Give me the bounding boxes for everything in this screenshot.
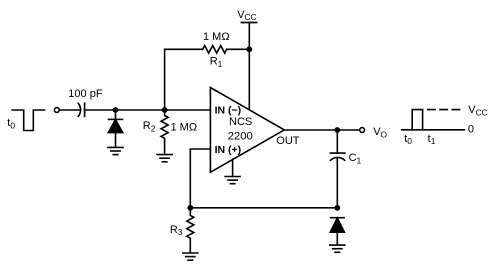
feedback wire node B up [165,49,203,110]
wire node A to node B [116,109,165,111]
resistor R1 (horizontal) [203,46,227,54]
ground (R2) [157,155,172,162]
svg-text:3: 3 [178,227,183,237]
VCC terminal bar [242,22,257,24]
op-amp U1 NCS2200 triangle [210,88,284,173]
label VO [373,126,387,139]
label IN (+) [215,144,242,156]
output waveform baseline 0 [402,129,465,131]
label 0 (waveform) [468,124,474,136]
wire capacitor to node A [85,109,116,111]
diode D1 (clamp to ground, cathode up) [108,110,122,147]
svg-text:2200: 2200 [228,130,253,142]
wire node D to node E [190,207,337,209]
svg-text:1 MΩ: 1 MΩ [203,31,230,43]
ground (D2) [330,245,345,252]
svg-text:2: 2 [151,123,156,133]
svg-text:NCS: NCS [229,116,252,128]
svg-text:R: R [170,224,178,236]
op-amp ground pin stub [232,159,234,176]
svg-text:1: 1 [431,136,436,146]
output terminal (open circle) [360,128,365,133]
node A (diode clamp node) [113,107,119,113]
output waveform pulse [412,110,422,130]
svg-text:R: R [143,120,151,132]
label C1 [349,152,362,165]
input pulse waveform t0 [12,110,44,131]
label OUT [276,135,300,147]
node D (R3 node) [187,205,193,211]
label IN (-) [215,104,242,116]
ground (R3) [183,253,198,260]
node B (R2 / feedback node) [162,107,168,113]
wire node B to op-amp IN(-) [165,109,211,111]
svg-text:100 pF: 100 pF [68,88,103,100]
svg-text:0: 0 [407,136,412,146]
svg-text:IN (+): IN (+) [215,144,242,156]
svg-text:1: 1 [357,155,362,165]
wire terminal to capacitor [60,109,79,111]
label NCS [229,116,252,128]
capacitor C1 [330,130,344,208]
capacitor 100 pF [78,103,84,116]
label 100 pF [68,88,103,100]
node F (output / C1 node) [334,127,340,133]
svg-text:1 MΩ: 1 MΩ [171,122,198,134]
node C (VCC node) [246,46,252,52]
wire IN(+) to node D [190,149,210,208]
diode D2 (cathode up) [330,218,344,245]
svg-text:OUT: OUT [276,135,300,147]
label 1 MOhm (R1) [203,31,230,43]
label t0 (waveform) [404,133,412,146]
node E (C1 bottom / D2 node) [334,205,340,211]
svg-text:IN (−): IN (−) [215,104,242,116]
label 2200 [228,130,253,142]
wire VCC bar through node C to op-amp power pin [248,23,250,110]
svg-text:O: O [380,130,387,140]
label R2 [143,120,156,133]
label t0 (input waveform) [7,117,15,130]
svg-text:CC: CC [476,107,488,117]
label R3 [170,224,183,237]
svg-text:0: 0 [10,121,15,131]
resistor R3 (vertical) [187,208,194,253]
svg-text:C: C [349,152,357,164]
svg-text:1: 1 [218,59,223,69]
svg-text:0: 0 [468,124,474,136]
label t1 (waveform) [428,133,436,146]
svg-text:CC: CC [244,12,256,22]
label R1 [210,56,223,69]
resistor R2 (vertical) [161,110,168,154]
svg-text:R: R [210,56,218,68]
label 1 MOhm (R2) [171,122,198,134]
output waveform VCC dashed level [428,109,460,111]
label VCC (waveform) [468,104,487,117]
ground (op-amp) [225,177,240,184]
ground (D1) [108,147,123,154]
input terminal (open circle) [54,108,59,113]
label VCC [237,9,256,22]
output wire apex to output terminal [284,129,359,131]
wire R1 to node C [227,48,250,50]
